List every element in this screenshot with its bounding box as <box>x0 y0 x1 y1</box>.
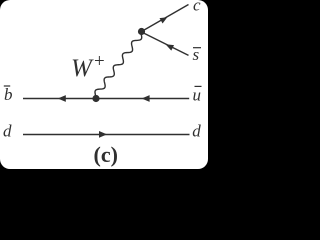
svg-text:W: W <box>71 55 94 82</box>
svg-text:b: b <box>4 85 13 104</box>
svg-text:d: d <box>3 121 12 140</box>
svg-text:u: u <box>193 86 202 105</box>
svg-text:+: + <box>94 51 105 72</box>
svg-text:c: c <box>193 0 201 15</box>
svg-text:d: d <box>192 121 201 140</box>
svg-text:(c): (c) <box>94 142 118 167</box>
